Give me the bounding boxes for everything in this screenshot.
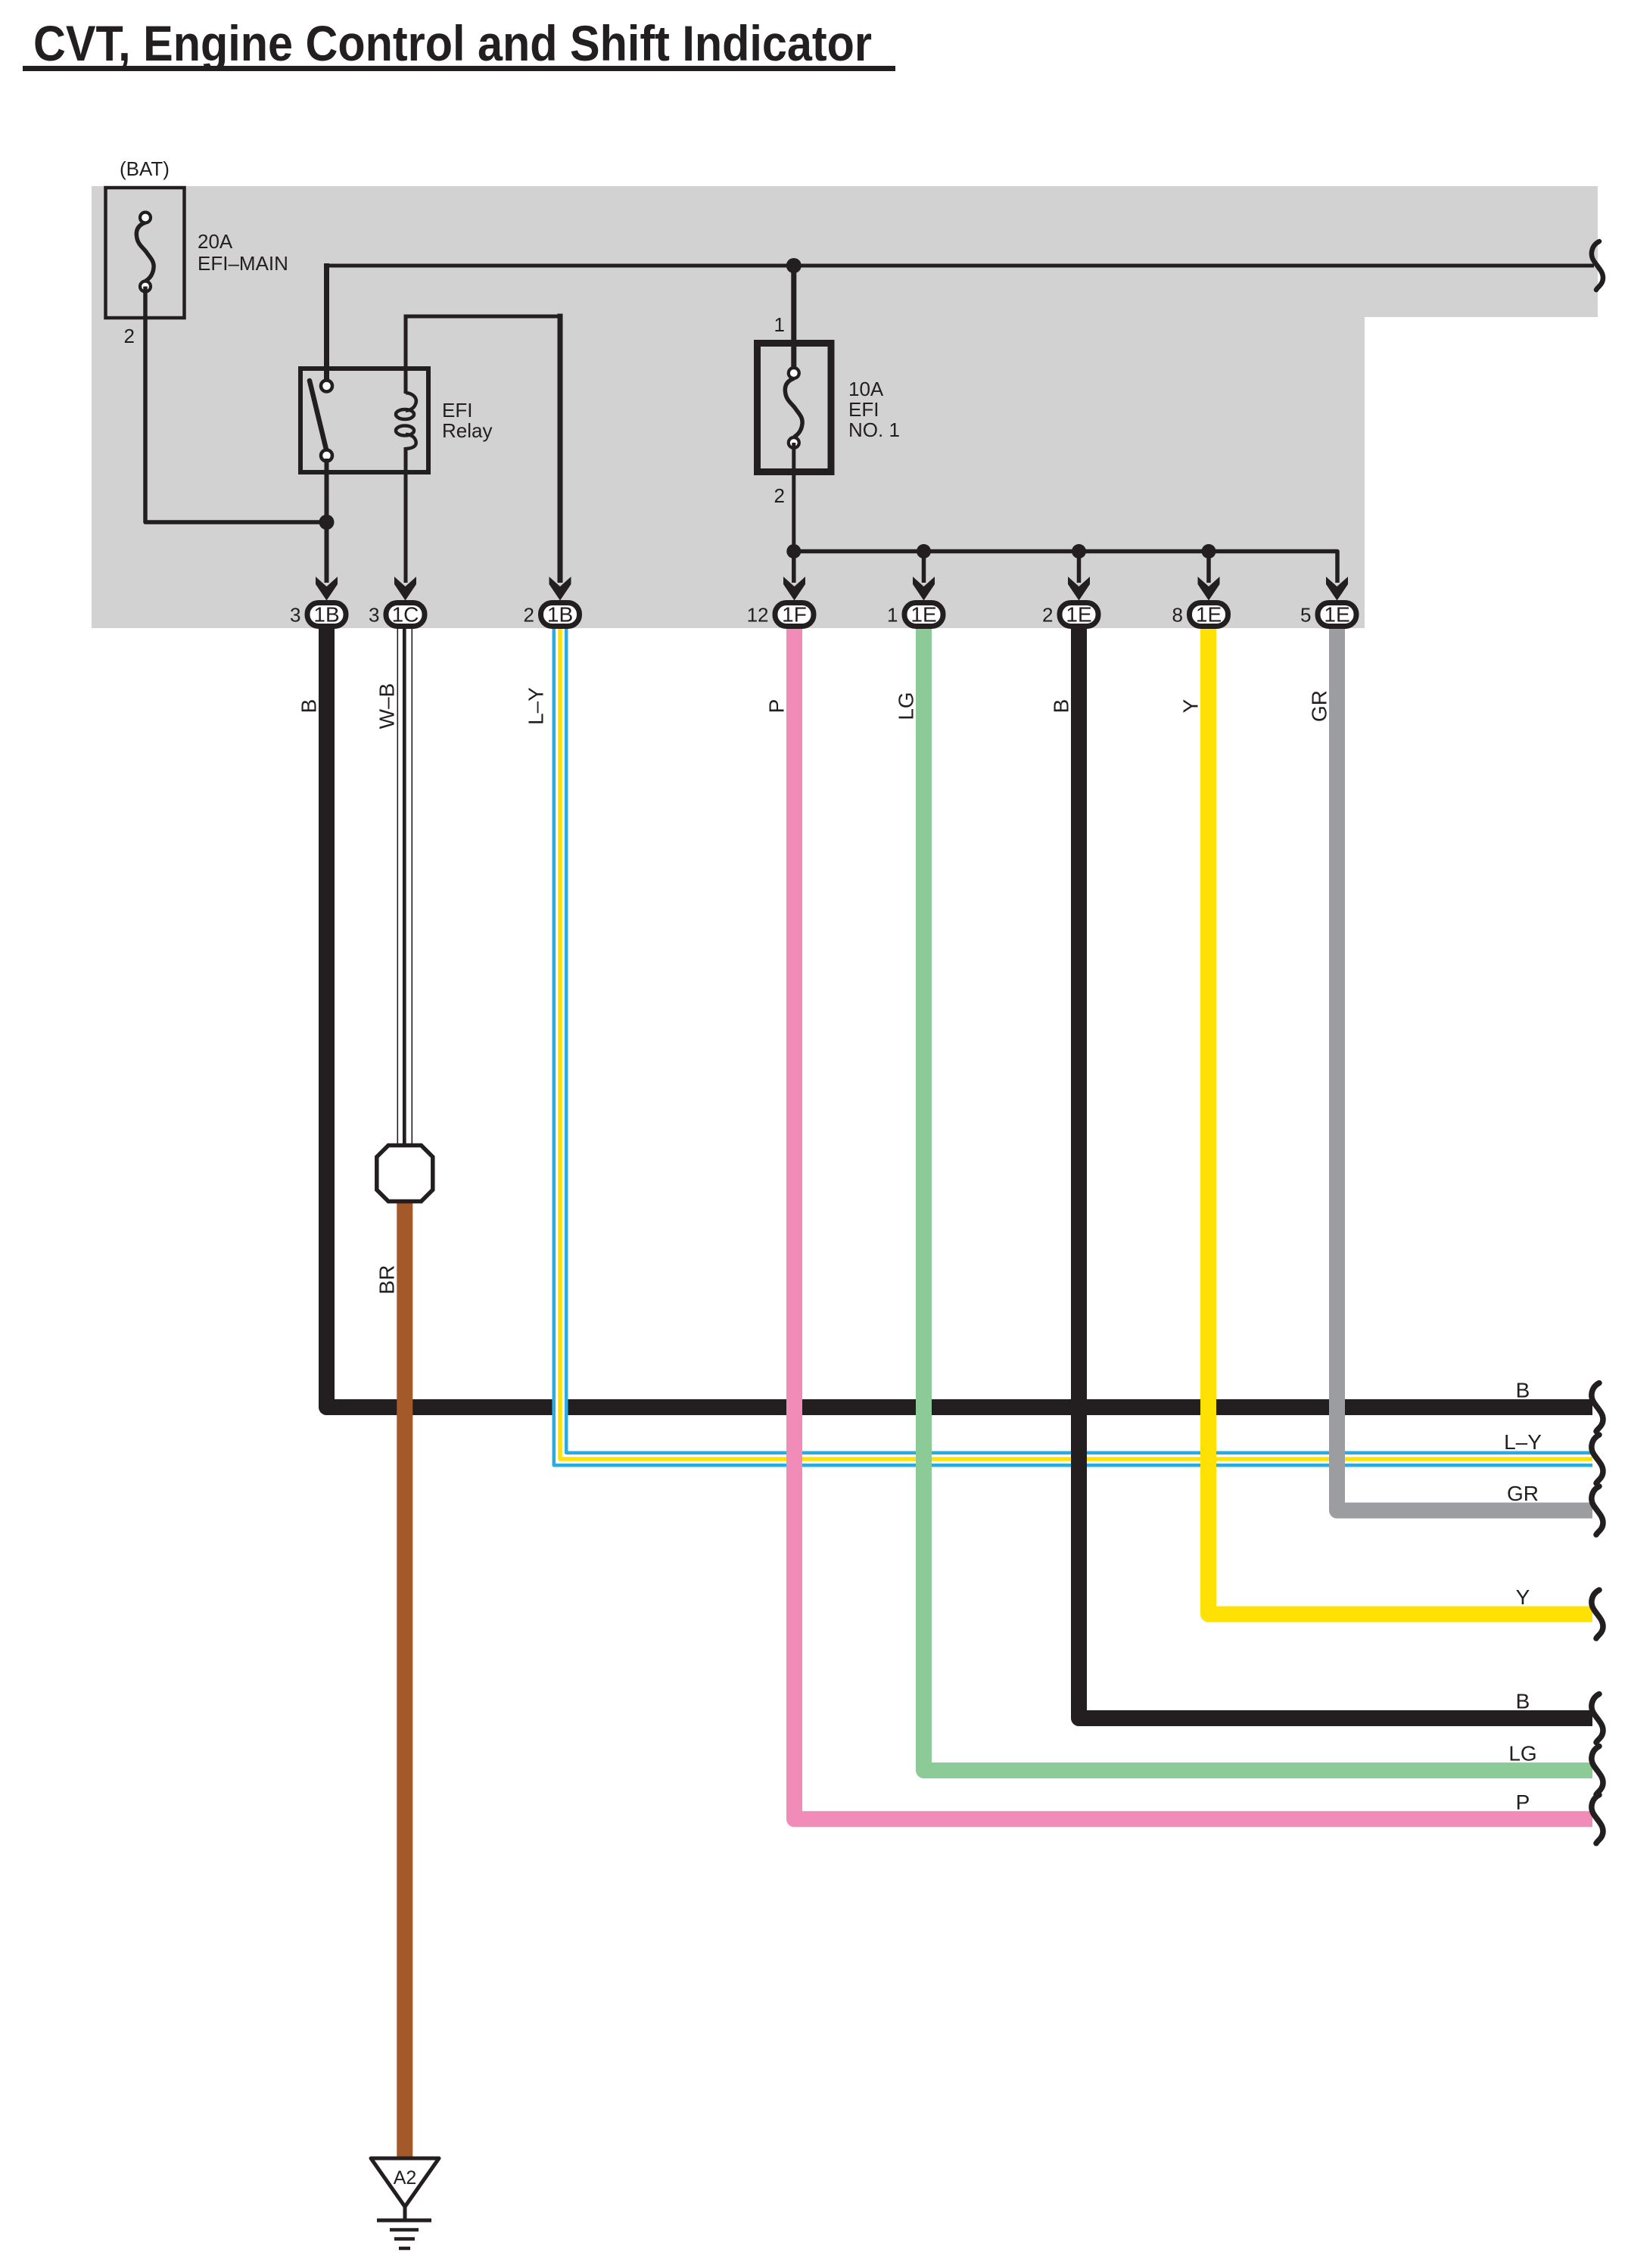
wire B black from 3 1B to right edge — [327, 627, 1593, 1408]
svg-text:(BAT): (BAT) — [120, 157, 170, 180]
connector 8 1E oval — [1190, 603, 1228, 627]
svg-text:EFI: EFI — [848, 398, 879, 421]
wire distribution bus from 10A fuse — [794, 552, 1337, 583]
svg-text:1: 1 — [774, 313, 785, 336]
break symbol at right end of B wire (y=2271) — [1592, 1694, 1603, 1743]
connector 5 1E arrow — [1326, 577, 1348, 601]
svg-text:LG: LG — [1508, 1742, 1536, 1766]
svg-text:2: 2 — [124, 325, 135, 347]
wire LG light green from 1 1E to right edge — [924, 627, 1593, 1771]
relay switch contact arm — [310, 381, 327, 451]
svg-text:W–B: W–B — [375, 683, 399, 730]
wire relay coil to 1C / top loop to 1B — [404, 315, 408, 369]
node dot bus at 1F — [786, 544, 801, 558]
svg-text:L–Y: L–Y — [1504, 1430, 1542, 1454]
break symbol at right end of B wire (y=1854) — [1592, 1383, 1603, 1432]
svg-text:B: B — [1050, 699, 1073, 714]
wire drop to 2 1E — [1077, 552, 1082, 583]
svg-text:2: 2 — [774, 484, 785, 507]
wire B black from 2 1E to right edge — [1079, 627, 1593, 1719]
connector 2 1B arrow — [549, 577, 571, 601]
svg-text:A2: A2 — [394, 2167, 417, 2189]
wire Y yellow from 8 1E to right edge — [1209, 627, 1593, 1614]
svg-text:LG: LG — [895, 692, 918, 720]
fuse 20A EFI-MAIN box — [106, 188, 185, 318]
svg-text:1: 1 — [887, 604, 898, 627]
ground bar 1 — [377, 2219, 431, 2223]
svg-text:GR: GR — [1507, 1482, 1539, 1505]
svg-text:L–Y: L–Y — [525, 687, 548, 725]
title underline — [23, 66, 895, 71]
wire W-B from 1C down to octagon (white with black stripe) — [397, 627, 398, 1149]
node dot bus at 1E pin8 — [1202, 544, 1216, 558]
svg-text:3: 3 — [369, 604, 379, 627]
svg-text:12: 12 — [747, 604, 769, 627]
svg-text:B: B — [1516, 1379, 1530, 1402]
wire BR brown from octagon to ground A2 — [397, 1201, 412, 2159]
fuse 10A element — [785, 378, 802, 437]
ground bar 4 — [399, 2247, 410, 2251]
svg-text:10A: 10A — [848, 378, 884, 400]
gray harness background block — [92, 186, 1598, 628]
svg-text:1F: 1F — [782, 603, 807, 627]
svg-text:Y: Y — [1516, 1585, 1530, 1609]
fuse 10A EFI NO.1 box — [758, 344, 832, 472]
svg-text:BR: BR — [375, 1265, 399, 1295]
svg-text:B: B — [1516, 1690, 1530, 1713]
connector 2 1E arrow — [1068, 577, 1090, 601]
connector 3 1B arrow — [316, 577, 338, 601]
svg-text:1C: 1C — [392, 603, 419, 627]
node dot bus at 1E pin2 — [1072, 544, 1086, 558]
svg-text:B: B — [297, 699, 321, 714]
connector 5 1E oval — [1318, 603, 1356, 627]
relay switch bottom terminal — [321, 450, 332, 462]
wire GR gray from 5 1E to right edge — [1337, 627, 1593, 1510]
svg-text:2: 2 — [524, 604, 534, 627]
wire relay coil bottom to 1C connector — [404, 472, 408, 583]
wire P pink from 12 1F to right edge — [795, 627, 1593, 1819]
wire drop to 8 1E — [1206, 552, 1211, 583]
svg-text:3: 3 — [290, 604, 300, 627]
svg-text:1B: 1B — [313, 603, 339, 627]
node junction dot relay output — [319, 515, 335, 530]
svg-text:20A: 20A — [198, 230, 233, 253]
svg-text:1B: 1B — [547, 603, 573, 627]
svg-text:Relay: Relay — [442, 419, 492, 442]
svg-text:P: P — [765, 699, 789, 714]
connector 12 1F arrow — [783, 577, 805, 601]
connector 3 1C oval — [386, 603, 425, 627]
wire 10A fuse pin2 lead — [792, 443, 795, 552]
connector 3 1C arrow — [394, 577, 416, 601]
svg-text:8: 8 — [1172, 604, 1183, 627]
wire EFI-MAIN horizontal feed — [324, 263, 329, 382]
svg-text:EFI: EFI — [442, 399, 472, 422]
wire L-Y from 2 1B to right edge — [560, 627, 1592, 1459]
relay switch top terminal — [321, 381, 332, 392]
svg-text:EFI–MAIN: EFI–MAIN — [198, 252, 288, 275]
break symbol at right end of GR wire (y=1993) — [1592, 1486, 1603, 1535]
ground A2 triangle — [371, 2158, 439, 2207]
connector 1 1E oval — [904, 603, 943, 627]
connector 2 1E oval — [1060, 603, 1098, 627]
break symbol at right end of EFI-MAIN wire — [1592, 241, 1603, 290]
wire drop to 1 1E — [922, 552, 926, 583]
svg-text:1E: 1E — [910, 603, 936, 627]
wire from 20A fuse pin2 to relay junction — [145, 287, 327, 523]
connector 1 1E arrow — [913, 577, 935, 601]
relay EFI Relay box — [300, 369, 428, 472]
svg-text:CVT, Engine Control and Shift: CVT, Engine Control and Shift Indicator — [33, 15, 872, 71]
connector 12 1F oval — [775, 603, 814, 627]
node dot bus at 1E pin1 — [917, 544, 931, 558]
wire relay switch down to 1B connector — [325, 459, 329, 583]
break symbol at right end of LG wire (y=2329) — [1592, 1747, 1603, 1795]
svg-text:1E: 1E — [1066, 603, 1091, 627]
svg-text:GR: GR — [1308, 690, 1331, 722]
wire 10A fuse pin1 lead — [791, 266, 796, 370]
wire drop to 12 1F — [792, 552, 796, 583]
connector 8 1E arrow — [1198, 577, 1220, 601]
break symbol at right end of P wire (y=2403) — [1592, 1795, 1603, 1843]
svg-text:Y: Y — [1179, 698, 1203, 713]
svg-text:P: P — [1516, 1790, 1530, 1814]
break symbol at right end of L–Y wire (y=1928) — [1592, 1435, 1603, 1483]
ground bar 2 — [390, 2228, 419, 2232]
svg-text:1E: 1E — [1324, 603, 1349, 627]
fuse 20A element — [136, 222, 154, 282]
svg-text:1E: 1E — [1196, 603, 1222, 627]
ground bar 3 — [394, 2237, 415, 2241]
break symbol at right end of Y wire (y=2135) — [1592, 1590, 1603, 1638]
octagon splice connector — [377, 1146, 433, 1202]
svg-text:2: 2 — [1042, 604, 1053, 627]
connector 2 1B oval — [541, 603, 580, 627]
relay coil — [404, 369, 408, 394]
connector 3 1B oval — [307, 603, 346, 627]
svg-text:5: 5 — [1300, 604, 1311, 627]
node junction dot at 10A fuse tap — [786, 258, 802, 273]
ground stem — [403, 2207, 407, 2220]
svg-text:NO. 1: NO. 1 — [848, 418, 900, 441]
